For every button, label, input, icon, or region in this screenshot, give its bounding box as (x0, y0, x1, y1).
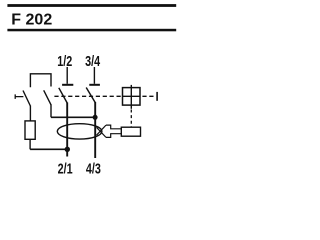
terminal 1/2 bar (62, 84, 73, 86)
terminal 3/4 stub (93, 67, 95, 84)
junction dot pole 1 (65, 147, 70, 152)
terminal 3/4 bar (89, 84, 100, 86)
svg-text:3/4: 3/4 (85, 52, 101, 69)
svg-text:4/3: 4/3 (86, 160, 101, 177)
dashed linkage left (54, 95, 122, 97)
pole 1 contact blade (59, 88, 67, 103)
mechanism square (123, 88, 141, 106)
wire resistor down (29, 139, 31, 149)
test button actuator (15, 94, 23, 99)
svg-text:F 202: F 202 (11, 11, 52, 28)
secondary connector plug (106, 125, 121, 137)
pole 1 conductor (66, 103, 68, 157)
svg-text:2/1: 2/1 (58, 160, 73, 177)
toroid current transformer (57, 124, 102, 139)
wire resistor to pole 1 (30, 148, 67, 150)
pole 2 conductor (94, 102, 96, 158)
test contact blade (44, 90, 51, 105)
wire test contact down (50, 104, 52, 117)
header top rule (7, 4, 176, 7)
header bottom rule (7, 29, 176, 32)
linkage end tick (156, 92, 158, 101)
dashed linkage right (142, 95, 154, 97)
junction dot pole 2 (93, 115, 98, 120)
test button blade (23, 91, 30, 107)
wire test contact to pole 2 (51, 116, 95, 118)
pole 2 contact blade (86, 88, 95, 103)
mechanism horizontal line (123, 95, 141, 97)
resistor R test (25, 121, 35, 139)
dashed link coil to mechanism (130, 110, 132, 127)
secondary winding crossover (97, 125, 107, 137)
mechanism vertical axis (130, 85, 132, 109)
trip coil (121, 127, 140, 136)
test circuit bracket (30, 74, 51, 87)
wire test button to resistor (29, 106, 31, 122)
svg-text:1/2: 1/2 (57, 52, 72, 69)
terminal 1/2 stub (66, 67, 68, 84)
